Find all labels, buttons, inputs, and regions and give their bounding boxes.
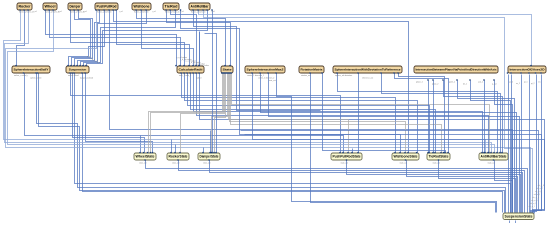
node Wishbone — [132, 3, 151, 10]
svg-text:sphere_centre: sphere_centre — [30, 76, 42, 79]
node WheelState — [134, 153, 156, 160]
wire — [199, 32, 201, 67]
wire — [50, 11, 181, 67]
wire — [83, 74, 503, 213]
wire — [210, 131, 212, 154]
svg-text:Rocker: Rocker — [19, 5, 31, 9]
svg-text:WishboneState: WishboneState — [394, 155, 418, 159]
wire — [352, 149, 354, 154]
wire — [137, 11, 226, 67]
wire — [407, 161, 518, 213]
svg-text:wh_st_8: wh_st_8 — [538, 184, 544, 187]
svg-text:frame_a frame_b: frame_a frame_b — [134, 11, 148, 14]
svg-text:axis_1: axis_1 — [478, 82, 483, 84]
svg-text:frame_a frame_b: frame_a frame_b — [165, 11, 179, 14]
svg-text:ax_1: ax_1 — [509, 82, 513, 84]
wire — [245, 135, 542, 214]
svg-text:Wishbone: Wishbone — [134, 5, 150, 9]
svg-text:frame_a frame_b: frame_a frame_b — [19, 11, 33, 14]
svg-text:r_rel: r_rel — [58, 11, 63, 13]
wire — [151, 74, 224, 154]
svg-text:wh_st_1: wh_st_1 — [529, 205, 535, 208]
svg-text:wh_st_7: wh_st_7 — [536, 187, 542, 190]
wire — [212, 11, 214, 154]
svg-text:reference_out: reference_out — [362, 76, 374, 79]
node IntersectionBetweenPlaneViaPointAndDirectionWithAxis — [414, 66, 498, 73]
node WishboneState — [392, 153, 419, 160]
node DamperState — [198, 153, 220, 160]
svg-text:SuspensionState: SuspensionState — [505, 214, 533, 218]
wire — [182, 74, 396, 154]
wire — [204, 11, 533, 213]
wire — [241, 131, 539, 214]
node State — [221, 66, 233, 73]
wire — [261, 74, 517, 213]
wire — [142, 11, 194, 67]
wire — [81, 11, 147, 67]
wire — [358, 74, 360, 154]
svg-text:rotation_out: rotation_out — [301, 74, 311, 77]
wire — [39, 74, 505, 213]
svg-text:rocker_r wheel_r: rocker_r wheel_r — [14, 74, 28, 77]
wire — [395, 74, 449, 154]
node Damper — [68, 3, 82, 10]
svg-text:Suspension: Suspension — [69, 68, 87, 72]
wire — [212, 74, 228, 154]
svg-text:wh_st_5: wh_st_5 — [534, 193, 540, 196]
wire — [200, 74, 545, 214]
wire — [114, 11, 409, 154]
svg-text:p_out: p_out — [492, 82, 497, 85]
svg-text:state_out: state_out — [433, 161, 441, 164]
svg-text:state_out: state_out — [400, 161, 408, 164]
wire — [110, 11, 513, 213]
wire — [167, 11, 231, 67]
wire — [203, 148, 205, 154]
wire — [140, 136, 142, 154]
wire — [75, 11, 93, 67]
wire — [71, 74, 341, 154]
node Suspension — [66, 66, 89, 73]
wire — [5, 11, 492, 154]
node Wheel — [43, 3, 57, 10]
svg-text:r_rel: r_rel — [152, 11, 157, 13]
node RockerState — [167, 153, 189, 160]
svg-text:state_out: state_out — [341, 161, 349, 164]
wire — [199, 32, 201, 67]
svg-text:state_out: state_out — [139, 161, 147, 164]
svg-text:WheelState: WheelState — [136, 155, 155, 159]
svg-text:IntersectionOf2Axes2D: IntersectionOf2Axes2D — [510, 68, 546, 72]
node SphereInteractionMax2 — [245, 66, 285, 73]
wire — [179, 161, 525, 213]
wire — [323, 74, 446, 154]
wire — [191, 74, 436, 154]
wire — [215, 74, 226, 154]
wire — [181, 74, 225, 154]
wire — [171, 11, 197, 67]
wire — [8, 11, 495, 154]
wire — [433, 81, 435, 154]
wire — [347, 161, 521, 213]
node CalculateRadii — [177, 66, 204, 73]
svg-text:SphereInteractionMax2: SphereInteractionMax2 — [247, 68, 284, 72]
wire — [185, 74, 418, 154]
wire — [69, 11, 105, 67]
wire — [495, 81, 513, 213]
svg-text:Wheel: Wheel — [45, 5, 56, 9]
wire — [205, 34, 217, 154]
svg-text:DamperState: DamperState — [200, 155, 219, 159]
svg-text:state_out: state_out — [172, 161, 180, 164]
wire — [146, 161, 528, 213]
wire — [253, 74, 545, 214]
wire — [71, 11, 185, 67]
wire — [73, 74, 145, 154]
svg-text:PushPullRod: PushPullRod — [97, 5, 118, 9]
wire — [458, 81, 515, 213]
wire — [87, 11, 208, 67]
wire — [495, 161, 513, 213]
wire — [269, 74, 520, 213]
svg-text:PushPullRodState: PushPullRodState — [333, 155, 361, 159]
svg-text:AntiRollBar: AntiRollBar — [191, 5, 209, 9]
svg-text:dir_1: dir_1 — [463, 83, 467, 85]
wire — [529, 75, 531, 213]
svg-text:RockerState: RockerState — [169, 155, 188, 159]
svg-text:TieRod: TieRod — [165, 5, 179, 9]
wire — [511, 75, 513, 213]
node RotationMatrix — [299, 66, 324, 73]
wire — [171, 140, 173, 154]
node SphereInteractionWithDeviationToReference — [333, 66, 402, 73]
wire — [531, 75, 542, 214]
wire — [484, 81, 486, 154]
svg-text:r_rel: r_rel — [119, 11, 124, 13]
node PushPullRodState — [331, 153, 362, 160]
wire — [78, 11, 100, 67]
svg-text:RotationMatrix: RotationMatrix — [301, 68, 323, 72]
wire — [439, 161, 516, 213]
wire — [194, 11, 321, 111]
wire — [149, 74, 223, 154]
wire — [311, 74, 496, 213]
wire — [382, 74, 501, 154]
svg-text:r_rel: r_rel — [180, 11, 185, 13]
wire — [197, 74, 489, 154]
svg-text:IntersectionBetweenPlaneViaPoi: IntersectionBetweenPlaneViaPointAndDirec… — [416, 68, 497, 72]
wire — [338, 74, 498, 154]
wire — [17, 11, 25, 67]
wire — [84, 11, 176, 67]
node IntersectionOf2Axes2D — [508, 66, 546, 73]
svg-text:wh_st_6: wh_st_6 — [535, 190, 541, 193]
wire — [188, 74, 430, 154]
node TieRod — [163, 3, 179, 10]
node SuspensionState — [503, 213, 534, 220]
svg-text:sphere_ref deviation: sphere_ref deviation — [335, 74, 352, 77]
wire — [199, 11, 532, 67]
node Rocker — [17, 3, 32, 10]
svg-text:rocker wheel: rocker wheel — [68, 74, 79, 77]
svg-text:plane_2: plane_2 — [432, 83, 438, 85]
wire — [46, 11, 177, 67]
wire — [37, 74, 506, 213]
svg-text:CalculateRadii: CalculateRadii — [179, 68, 203, 72]
node PushPullRod — [95, 3, 118, 10]
node SphereInteractionBallY — [12, 66, 50, 73]
node AntiRollBarState — [479, 153, 508, 160]
wire — [230, 74, 406, 154]
node TieRodState — [427, 153, 450, 160]
svg-text:wh_st_2: wh_st_2 — [530, 202, 536, 205]
wire — [515, 221, 517, 224]
svg-text:SphereInteractionBallY: SphereInteractionBallY — [14, 68, 50, 72]
wire — [194, 74, 483, 154]
svg-text:state_out: state_out — [203, 161, 211, 164]
wire — [399, 74, 445, 154]
wire — [428, 81, 430, 154]
wire — [508, 75, 510, 213]
svg-text:frame_a frame_b: frame_a frame_b — [191, 11, 205, 14]
wire — [181, 11, 401, 154]
svg-text:wh_st_4: wh_st_4 — [533, 196, 539, 199]
wire — [232, 74, 490, 154]
svg-text:r_rel: r_rel — [83, 11, 88, 13]
svg-text:r_rel: r_rel — [211, 11, 216, 13]
svg-text:wh_st_3: wh_st_3 — [531, 199, 537, 202]
wire — [521, 75, 523, 213]
svg-text:q_e: q_e — [97, 62, 100, 64]
wire — [25, 74, 344, 154]
wire — [444, 81, 503, 154]
svg-text:plane_1: plane_1 — [416, 82, 423, 84]
svg-text:state_out: state_out — [488, 161, 496, 164]
wire — [86, 74, 153, 154]
svg-text:radii_1 radii_2: radii_1 radii_2 — [179, 74, 191, 77]
wire — [277, 74, 497, 213]
svg-text:ax_2: ax_2 — [516, 83, 520, 85]
wire — [231, 74, 442, 154]
wire — [117, 11, 190, 67]
wire — [175, 145, 177, 154]
wire — [229, 74, 349, 154]
svg-text:pt_2: pt_2 — [531, 82, 535, 85]
svg-text:res: res — [538, 82, 541, 84]
svg-text:r_rel: r_rel — [33, 11, 38, 13]
wire — [4, 11, 486, 154]
svg-text:r_f_rel radius: r_f_rel radius — [198, 65, 209, 67]
svg-text:State: State — [223, 68, 232, 72]
svg-text:Damper: Damper — [70, 5, 81, 9]
svg-text:pt_1: pt_1 — [524, 81, 528, 84]
svg-text:frame_a frame_b: frame_a frame_b — [97, 11, 111, 14]
svg-text:TieRodState: TieRodState — [429, 155, 449, 159]
node AntiRollBar — [189, 3, 210, 10]
wire — [75, 74, 511, 213]
wire — [471, 81, 511, 213]
svg-text:point_1: point_1 — [449, 81, 455, 84]
wire — [72, 11, 91, 67]
svg-text:radii_3: radii_3 — [196, 77, 201, 79]
svg-text:AntiRollBarState: AntiRollBarState — [481, 155, 507, 159]
wire — [532, 75, 537, 214]
wire — [509, 221, 511, 224]
svg-text:SphereInteractionWithDeviation: SphereInteractionWithDeviationToReferenc… — [335, 68, 401, 72]
svg-text:axis_out: axis_out — [269, 79, 276, 82]
svg-text:damper pushrod: damper pushrod — [80, 77, 93, 79]
wire — [210, 161, 523, 213]
